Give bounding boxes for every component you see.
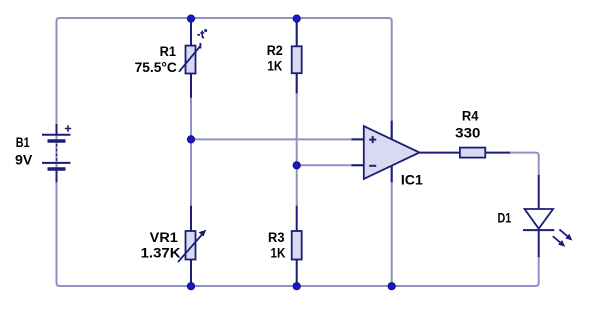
op-amp IC1: [352, 121, 460, 183]
wire left rail / top rail / opamp power rail: [57, 18, 392, 286]
svg-text:IC1: IC1: [401, 173, 423, 188]
wire noninverting input: [191, 138, 363, 140]
label -t: [197, 30, 206, 38]
junction dot mid R1: [187, 136, 194, 143]
svg-text:VR1: VR1: [150, 230, 179, 245]
thermistor R1: [179, 20, 200, 98]
resistor R2: [292, 20, 302, 93]
junction dot top R2: [293, 15, 300, 22]
svg-text:1K: 1K: [271, 246, 286, 261]
wire output to LED: [508, 153, 539, 176]
junction dot top R1: [187, 15, 194, 22]
wire bottom rail: [57, 124, 539, 286]
junction dot bottom R2: [293, 283, 300, 290]
wire R2 column: [296, 20, 298, 206]
svg-text:1.37K: 1.37K: [141, 246, 181, 261]
svg-text:1K: 1K: [267, 59, 282, 74]
svg-text:R1: R1: [160, 44, 177, 59]
resistor R4: [460, 148, 510, 158]
svg-text:75.5°C: 75.5°C: [135, 60, 178, 75]
svg-text:R3: R3: [268, 230, 285, 245]
wire inverting input: [297, 164, 363, 166]
junction dot mid R2: [293, 162, 300, 169]
junction dot bottom opamp: [388, 283, 395, 290]
svg-text:9V: 9V: [15, 152, 32, 167]
LED D1: [523, 175, 572, 257]
svg-text:R2: R2: [267, 43, 283, 58]
svg-text:D1: D1: [498, 210, 512, 225]
svg-text:R4: R4: [462, 108, 479, 123]
battery B1: [42, 124, 71, 182]
svg-text:B1: B1: [16, 135, 30, 150]
svg-text:330: 330: [455, 125, 480, 140]
potentiometer VR1: [178, 206, 206, 285]
junction dot bottom R1: [187, 283, 194, 290]
resistor R3: [292, 206, 302, 285]
wire R1 column: [190, 20, 192, 206]
